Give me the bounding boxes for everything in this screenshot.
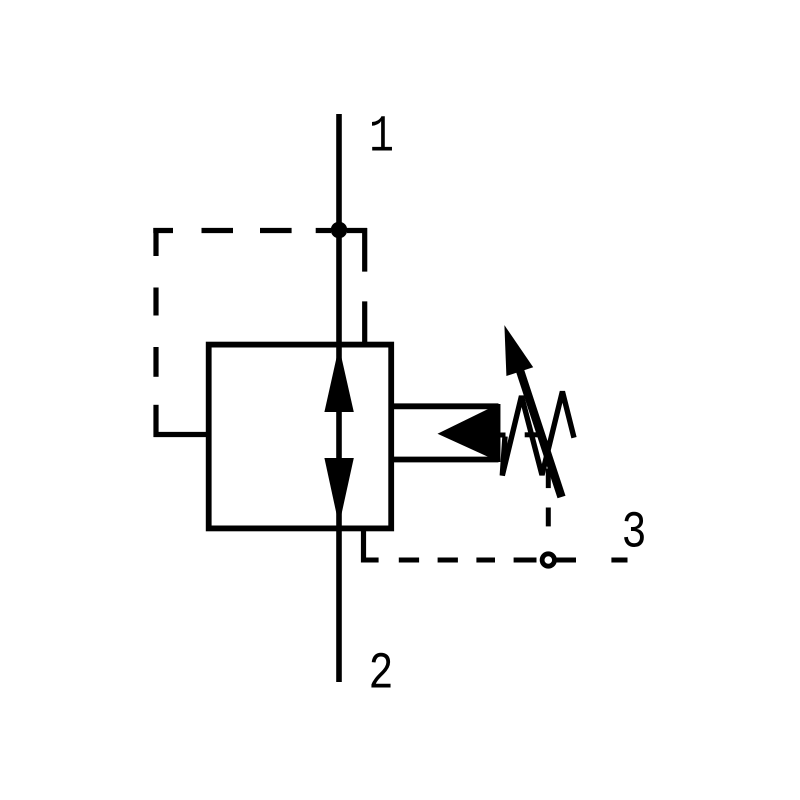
wire pilot dashed vertical right (junction down to valve body top) <box>362 228 367 345</box>
spring force arrowhead pointing left into valve <box>438 404 498 461</box>
wire drain dashed vertical from spring to port 3 circle <box>546 469 551 527</box>
svg-text:2: 2 <box>369 645 394 704</box>
node junction dot on port 1 line <box>331 222 348 239</box>
spring centerline tick right <box>525 432 538 437</box>
actuator channel bottom line <box>391 457 499 463</box>
spring centerline tick left <box>497 433 506 438</box>
wire drain dashed horizontal to port 3 <box>361 558 628 563</box>
wire pilot dashed vertical right below valve body to drain line <box>361 528 366 562</box>
adjustment arrowhead <box>504 325 533 376</box>
wire pilot solid horizontal right of junction <box>347 228 367 233</box>
svg-text:3: 3 <box>622 504 647 563</box>
adjustment arrow shaft diagonal <box>517 363 561 497</box>
spring zigzag <box>502 392 574 476</box>
svg-text:1: 1 <box>369 108 394 167</box>
port 3 drain circle <box>542 554 554 566</box>
wire pilot dashed vertical left <box>153 228 158 437</box>
flow path shaft inside valve body <box>336 345 342 529</box>
wire pilot dashed horizontal top (junction to left corner) <box>153 228 331 233</box>
actuator channel top line <box>391 403 499 409</box>
flow arrow down <box>324 458 353 526</box>
wire port 1 main vertical line <box>336 114 342 682</box>
valve body envelope square <box>209 345 392 529</box>
actuator channel end bar <box>496 404 501 462</box>
flow arrow up (normally open path) <box>324 347 353 413</box>
wire pilot solid connector to valve body left <box>154 432 210 437</box>
